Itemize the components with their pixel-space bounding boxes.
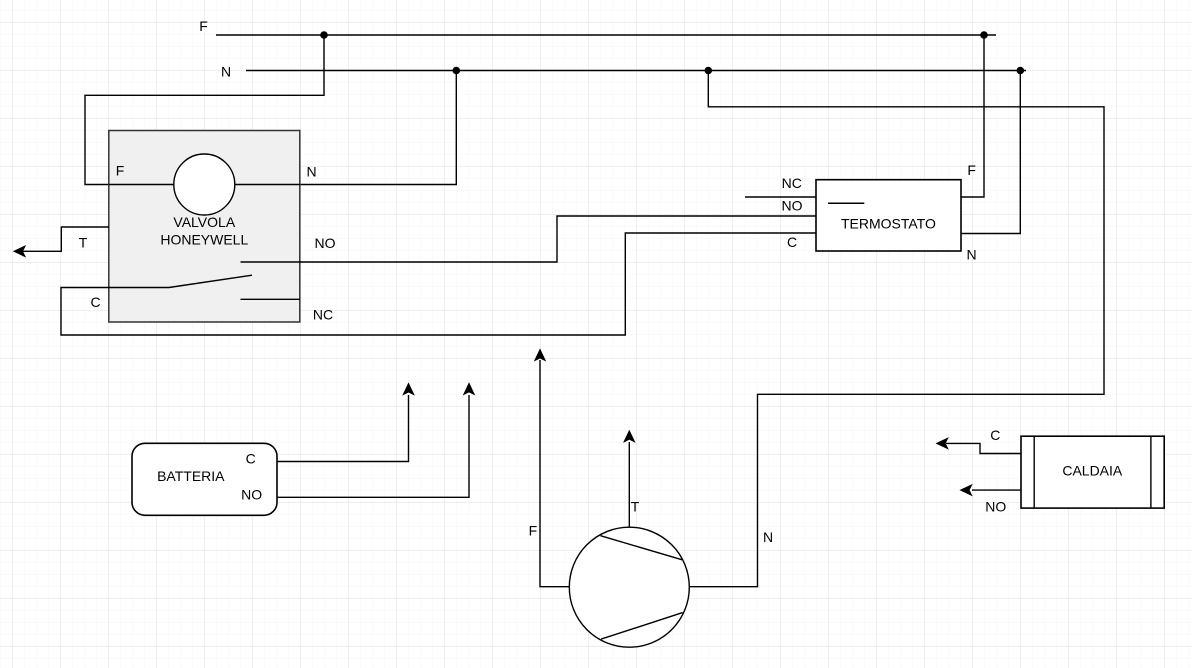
svg-text:BATTERIA: BATTERIA bbox=[157, 468, 225, 484]
arrowhead battery C bbox=[403, 384, 413, 395]
svg-text:N: N bbox=[221, 64, 231, 80]
svg-text:N: N bbox=[967, 247, 977, 263]
arrowhead T left bbox=[14, 246, 25, 256]
arrowhead boiler C bbox=[937, 438, 948, 448]
svg-text:NC: NC bbox=[782, 175, 802, 191]
arrowhead battery NO bbox=[464, 383, 474, 394]
wire battery NO with up arrow bbox=[277, 395, 469, 497]
boiler left inner line bbox=[1033, 436, 1035, 508]
boiler right inner line bbox=[1150, 436, 1152, 508]
wire N bus bbox=[246, 70, 1026, 72]
pump circle bbox=[569, 527, 689, 647]
wire valve N terminal to N bus bbox=[300, 71, 456, 185]
arrowhead pump T bbox=[624, 431, 634, 442]
svg-text:F: F bbox=[967, 162, 976, 178]
node junction N bus at valve branch bbox=[453, 67, 461, 75]
wire valve T terminal with arrow bbox=[15, 227, 109, 251]
svg-text:C: C bbox=[246, 450, 256, 466]
wire thermostat NC stub bbox=[745, 196, 816, 198]
wire F bus to thermostat F terminal bbox=[961, 35, 984, 197]
wire valve NO to thermostat NO bbox=[241, 216, 817, 262]
valve switch NC contact bbox=[241, 298, 301, 300]
svg-text:F: F bbox=[529, 522, 538, 538]
wire battery C with up arrow bbox=[277, 395, 409, 462]
svg-text:C: C bbox=[990, 427, 1000, 443]
svg-text:VALVOLA: VALVOLA bbox=[173, 214, 235, 230]
svg-text:T: T bbox=[631, 499, 640, 515]
svg-text:CALDAIA: CALDAIA bbox=[1062, 463, 1123, 479]
wire pump F with up arrow bbox=[540, 360, 569, 587]
node junction F bus right bbox=[980, 31, 988, 39]
node junction F bus bbox=[320, 31, 328, 39]
svg-text:F: F bbox=[199, 18, 208, 34]
wire N bus to pump N terminal bbox=[690, 71, 1104, 587]
wire boiler NO with left arrow bbox=[972, 489, 1021, 491]
svg-text:F: F bbox=[116, 162, 125, 178]
svg-text:N: N bbox=[763, 529, 773, 545]
wire F bus bbox=[216, 34, 996, 36]
valve box VALVOLA HONEYWELL bbox=[109, 131, 300, 323]
svg-text:T: T bbox=[79, 235, 88, 251]
battery box BATTERIA bbox=[132, 443, 277, 515]
wire boiler C with left arrow bbox=[946, 443, 1021, 453]
svg-text:N: N bbox=[306, 164, 316, 180]
svg-text:NO: NO bbox=[782, 198, 803, 214]
valve switch arm bbox=[109, 275, 252, 287]
thermostat box TERMOSTATO bbox=[816, 180, 961, 251]
arrowhead pump F bbox=[535, 350, 545, 361]
wire valve internal F-N line bbox=[109, 184, 300, 186]
svg-text:NO: NO bbox=[241, 486, 262, 502]
valve motor circle bbox=[174, 154, 235, 215]
svg-text:NO: NO bbox=[315, 235, 336, 251]
wire pump T with up arrow bbox=[628, 442, 630, 527]
pump lower blade chord bbox=[601, 613, 683, 640]
wire valve C to thermostat C bbox=[61, 233, 816, 335]
thermostat internal contact line bbox=[828, 202, 864, 204]
svg-text:HONEYWELL: HONEYWELL bbox=[160, 231, 248, 247]
pump upper blade chord bbox=[601, 536, 683, 560]
boiler box CALDAIA bbox=[1021, 436, 1164, 508]
svg-text:NC: NC bbox=[313, 307, 333, 323]
arrowhead boiler NO bbox=[961, 485, 972, 495]
svg-text:C: C bbox=[787, 234, 797, 250]
node junction N bus at thermostat branch bbox=[1017, 67, 1025, 75]
svg-text:C: C bbox=[90, 294, 100, 310]
svg-text:NO: NO bbox=[985, 499, 1006, 515]
wire F bus to valve F terminal bbox=[85, 35, 324, 185]
node junction N bus at pump branch bbox=[705, 67, 713, 75]
wire N bus to thermostat N terminal bbox=[961, 71, 1020, 234]
label valve VALVOLA HONEYWELL bbox=[160, 214, 248, 247]
svg-text:TERMOSTATO: TERMOSTATO bbox=[841, 216, 936, 232]
